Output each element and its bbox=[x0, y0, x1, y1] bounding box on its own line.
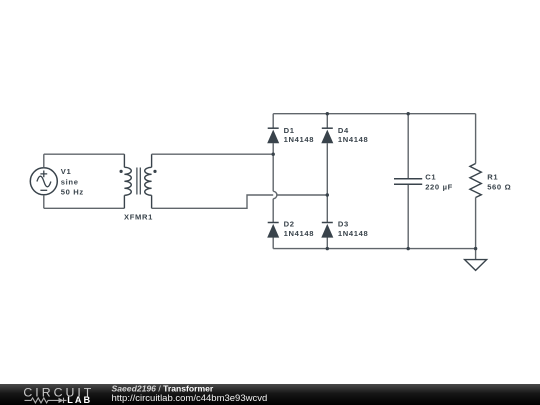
wire top rail bbox=[273, 113, 475, 115]
svg-text:1N4148: 1N4148 bbox=[338, 135, 369, 144]
svg-text:220 µF: 220 µF bbox=[425, 183, 453, 192]
svg-text:Saeed2196 / Transformer: Saeed2196 / Transformer bbox=[112, 383, 214, 393]
wire right bridge column bbox=[326, 114, 328, 249]
node bottom rail / ground bbox=[474, 247, 477, 250]
wire left bridge column bbox=[272, 114, 274, 249]
svg-text:D3: D3 bbox=[338, 220, 349, 229]
wire V1 to transformer primary top bbox=[44, 153, 125, 155]
svg-text:R1: R1 bbox=[487, 172, 498, 181]
node top rail / D4 column bbox=[326, 112, 329, 115]
wire transformer primary bottom to V1 bbox=[44, 207, 125, 209]
svg-text:sine: sine bbox=[61, 177, 79, 186]
wire V1 top lead bbox=[43, 154, 45, 167]
label D2 1N4148 bbox=[284, 220, 315, 238]
svg-text:V1: V1 bbox=[61, 167, 72, 176]
wire ground stub bbox=[475, 249, 477, 260]
wire resistor column top bbox=[475, 114, 477, 164]
label D3 1N4148 bbox=[338, 220, 369, 238]
transformer XFMR1 bbox=[120, 154, 157, 208]
wire capacitor column bottom bbox=[407, 184, 409, 248]
label C1 220 uF bbox=[425, 172, 453, 191]
CircuitLab logo diode bbox=[59, 398, 64, 403]
svg-text:C1: C1 bbox=[425, 172, 436, 181]
diode D1 bbox=[267, 128, 279, 143]
svg-text:D1: D1 bbox=[284, 126, 295, 135]
svg-text:1N4148: 1N4148 bbox=[284, 229, 315, 238]
svg-text:50 Hz: 50 Hz bbox=[61, 188, 84, 197]
svg-text:1N4148: 1N4148 bbox=[284, 135, 315, 144]
wire secondary bottom with step bbox=[152, 195, 328, 208]
label XFMR1 bbox=[124, 213, 153, 222]
wire secondary top to bridge bbox=[152, 153, 274, 155]
node bottom rail / capacitor bbox=[407, 247, 410, 250]
node top rail / capacitor bbox=[407, 112, 410, 115]
svg-text:XFMR1: XFMR1 bbox=[124, 213, 153, 222]
CircuitLab logo circuit squiggle bbox=[25, 398, 67, 403]
label R1 560 Ohm bbox=[487, 172, 511, 191]
svg-text:D2: D2 bbox=[284, 220, 295, 229]
svg-text:LAB: LAB bbox=[67, 395, 92, 405]
ground bbox=[465, 260, 487, 271]
wire capacitor column top bbox=[407, 114, 409, 179]
svg-text:1N4148: 1N4148 bbox=[338, 229, 369, 238]
svg-text:D4: D4 bbox=[338, 126, 349, 135]
resistor R1 bbox=[470, 164, 481, 198]
wire hop over secondary wire bbox=[273, 191, 277, 198]
diode D4 bbox=[321, 128, 333, 143]
label D1 1N4148 bbox=[284, 126, 315, 144]
diode D3 bbox=[321, 223, 333, 238]
label V1 sine 50 Hz bbox=[61, 167, 84, 196]
svg-text:http://circuitlab.com/c44bm3e9: http://circuitlab.com/c44bm3e93wcvd bbox=[112, 393, 268, 404]
voltage source V1 bbox=[30, 168, 57, 195]
node bottom rail / D3 column bbox=[326, 247, 329, 250]
wire V1 bottom lead bbox=[43, 195, 45, 208]
svg-text:560 Ω: 560 Ω bbox=[487, 183, 511, 192]
wire resistor column bottom bbox=[475, 198, 477, 249]
diode D2 bbox=[267, 223, 279, 238]
label D4 1N4148 bbox=[338, 126, 369, 144]
wire bottom rail bbox=[273, 248, 475, 250]
node secondary-bottom / bridge right bbox=[326, 193, 329, 196]
capacitor C1 bbox=[394, 179, 422, 185]
node secondary-top / bridge left bbox=[272, 153, 275, 156]
